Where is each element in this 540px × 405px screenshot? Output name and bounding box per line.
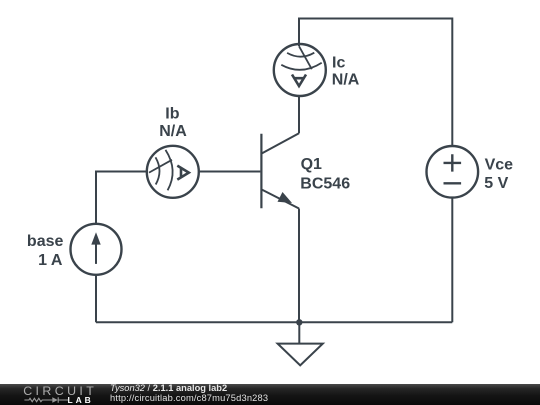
wire Q1 emitter to bottom rail	[298, 209, 300, 323]
wire Ic ammeter bottom to Q1 collector	[298, 95, 300, 133]
footer title text line 1	[110, 384, 227, 393]
wire ground stub	[298, 322, 300, 343]
svg-text:5 V: 5 V	[484, 175, 508, 192]
svg-text:1 A: 1 A	[38, 252, 63, 269]
ammeter Ib	[147, 146, 199, 198]
wire top rail: Ic ammeter top, up, across, down to Vce top	[299, 19, 452, 147]
voltage source Vce	[427, 146, 479, 198]
svg-text:Q1: Q1	[301, 156, 322, 173]
ammeter Ic	[274, 44, 326, 96]
svg-text:Ib: Ib	[165, 105, 179, 122]
footer url text line 2	[110, 394, 268, 403]
CircuitLab logo resistor-diode squiggle	[23, 395, 69, 405]
svg-text:N/A: N/A	[332, 71, 360, 88]
svg-text:Ic: Ic	[332, 55, 345, 72]
footer bar	[0, 384, 540, 405]
current source base	[71, 224, 122, 275]
transistor Q1	[261, 133, 299, 208]
CircuitLab logo LAB text	[68, 396, 94, 405]
svg-text:N/A: N/A	[159, 123, 187, 140]
ground	[278, 344, 323, 366]
CircuitLab logo CIRCUIT text	[23, 385, 97, 397]
wire current source top, up, right to Ib ammeter left	[96, 172, 147, 225]
wire current source bottom to bottom rail	[95, 275, 97, 323]
wire Vce bottom to bottom-right corner	[451, 198, 453, 323]
svg-text:base: base	[27, 233, 64, 250]
svg-text:BC546: BC546	[300, 175, 350, 192]
wire bottom rail	[96, 321, 452, 323]
node junction at emitter/ground on bottom rail	[296, 319, 302, 325]
svg-text:Vce: Vce	[485, 156, 514, 173]
wire Ib ammeter right to Q1 base	[199, 171, 261, 173]
